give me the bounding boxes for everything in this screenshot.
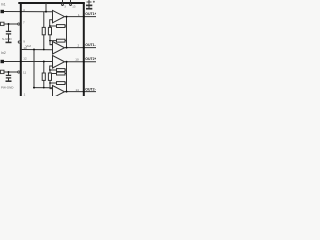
svg-text:OUT2+: OUT2+ <box>85 57 96 61</box>
input pad C1 terminal (open) <box>1 22 5 25</box>
wire R1a bottom lead to Vref wire <box>43 35 45 50</box>
wire C1 pin row <box>4 23 18 25</box>
wire Vref row channel 2 <box>34 87 53 89</box>
capacitor C2 plates <box>6 74 11 76</box>
pin circle pin7 <box>18 23 20 25</box>
junction node R4f row <box>49 82 51 84</box>
wire R3a bottom lead to Vref wire <box>43 80 45 87</box>
input pad C2 terminal (open) <box>1 70 5 73</box>
junction node OUT1+ at IC edge <box>83 16 85 18</box>
svg-text:OUT1+: OUT1+ <box>85 12 96 16</box>
wire OUT2+ <box>65 61 97 63</box>
IC box top edge <box>18 2 85 4</box>
svg-text:12: 12 <box>23 56 27 60</box>
svg-text:OUT1-: OUT1- <box>85 43 96 47</box>
junction node IN1/C1 <box>8 23 10 25</box>
wire R3f right lead <box>65 69 67 71</box>
resistor R1f (U1 feedback, horizontal) <box>57 25 66 28</box>
junction node R1b top <box>49 25 51 27</box>
resistor R2f (U2 feedback, horizontal) <box>57 39 66 42</box>
wire R1f right lead up to OUT1+ <box>65 25 67 27</box>
wire R3b bottom lead to U4 inverting input <box>50 80 53 88</box>
resistor R1a (vertical) <box>42 27 45 34</box>
op-amp U1 (upper, channel 1 non-inverting) <box>53 10 65 22</box>
junction node U2 out <box>66 47 68 49</box>
svg-text:10: 10 <box>23 46 27 50</box>
capacitor C1 plates <box>6 30 11 32</box>
wire Vref row channel 1 <box>22 49 53 51</box>
pin circle top tick 2 <box>70 4 72 6</box>
svg-text:11: 11 <box>23 70 26 74</box>
junction node R3b top <box>49 69 51 71</box>
wire OUT1+ <box>65 16 97 18</box>
junction node OUT2+ at IC edge <box>83 61 85 63</box>
op-amp U4 (lower, channel 2 inverting, clipped at bottom) <box>53 86 65 99</box>
wire U4 input row <box>52 73 57 75</box>
input pad IN1 (filled) <box>1 10 5 13</box>
svg-text:In2: In2 <box>1 51 6 55</box>
wire vertical bus OUT2+ to U4 out <box>66 62 68 92</box>
junction node U4 out <box>66 91 68 93</box>
junction node OUT2- at IC edge <box>83 91 85 93</box>
svg-text:S-GND: S-GND <box>2 37 13 41</box>
wire vertical from supply line to IN1 node <box>45 3 47 12</box>
ground PW-GND bar <box>6 80 12 82</box>
junction node U3 out feedback <box>66 61 68 63</box>
IC box left edge <box>20 3 22 96</box>
wire OUT1- <box>65 47 97 49</box>
svg-text:PW-GND: PW-GND <box>1 85 14 89</box>
resistor R3b (vertical) <box>48 73 51 80</box>
capacitor C1 leads <box>8 24 10 31</box>
junction node OUT1- at IC edge <box>83 47 85 49</box>
resistor R4f (U4 feedback) <box>57 82 66 85</box>
junction node Vref bus bottom <box>33 87 35 89</box>
pin circle pin 9 <box>18 41 20 43</box>
junction node Vref bus top <box>33 49 35 51</box>
pin tick top 1 <box>62 0 64 4</box>
pin circle top tick 1 <box>62 4 64 6</box>
wire Vref bus vertical <box>33 50 35 88</box>
wire U4 feedback row <box>50 82 57 84</box>
input pad IN2 (filled) <box>1 60 5 63</box>
junction node input split ch2 <box>43 61 45 63</box>
wire IN2 node down to R3a <box>43 62 45 73</box>
wire R1b top lead <box>49 26 51 27</box>
capacitor C2 leads <box>8 72 10 75</box>
junction node input split ch1 <box>45 11 47 13</box>
op-amp U3 (channel 2 non-inverting) <box>53 56 65 69</box>
pin tick top 2 <box>70 0 72 4</box>
svg-text:In1: In1 <box>1 3 6 7</box>
svg-text:10: 10 <box>75 58 79 62</box>
battery/supply symbol top right <box>88 0 90 5</box>
junction node pin IN2 edge <box>20 61 22 63</box>
wire IN1 to U1 + input <box>4 11 53 13</box>
resistor R4i (U4 input, horizontal) <box>57 72 66 75</box>
wire U2 feedback drop <box>50 41 57 45</box>
wire R2f right lead <box>65 40 67 42</box>
svg-text:13: 13 <box>72 5 76 9</box>
wire R4f right lead <box>65 82 67 84</box>
wire R3b top lead <box>49 70 51 73</box>
wire IN2 to U3 + input <box>4 61 53 63</box>
junction node R3a bottom <box>43 87 45 89</box>
junction node R2f row <box>49 40 51 42</box>
resistor R3a (vertical) <box>42 73 45 80</box>
junction node on pin4 <box>20 11 22 13</box>
junction node R1a bottom <box>43 49 45 51</box>
svg-text:OUT2-: OUT2- <box>85 88 96 92</box>
wire R1b bottom lead to U2 input <box>50 35 53 45</box>
pin circle pin C2 <box>18 71 20 73</box>
resistor R1b (vertical) <box>48 27 51 34</box>
wire OUT2- <box>65 91 97 93</box>
junction node U1 out feedback <box>66 16 68 18</box>
svg-text:14: 14 <box>76 88 80 92</box>
wire R1a top lead from input node <box>43 12 45 28</box>
op-amp U2 (channel 1 inverting) <box>53 42 65 55</box>
wire vertical bus OUT1+ to U2 out <box>66 17 68 48</box>
ground S-GND bar <box>6 41 12 43</box>
wire U3 feedback drop <box>50 66 57 70</box>
resistor R3f (U3 feedback) <box>57 69 66 72</box>
wire U1 feedback: inverting input drop <box>50 20 57 26</box>
wire R4i right lead <box>65 73 67 75</box>
wire C2 pin row <box>4 71 18 73</box>
junction node IN2/C2 <box>8 71 10 73</box>
IC box right edge <box>83 3 85 96</box>
